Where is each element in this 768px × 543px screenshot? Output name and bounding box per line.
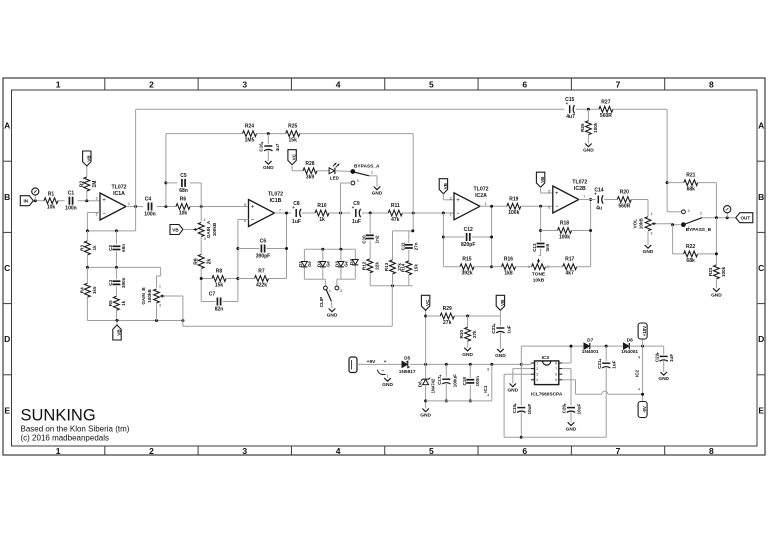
ground CLIP	[329, 309, 336, 312]
wire pin8 riser	[562, 362, 571, 364]
svg-text:GND: GND	[462, 352, 473, 358]
svg-text:R23: R23	[708, 267, 713, 276]
capacitor C21	[602, 362, 610, 364]
svg-text:A: A	[4, 121, 10, 131]
svg-text:15k: 15k	[413, 264, 418, 272]
svg-text:1M5: 1M5	[245, 138, 255, 144]
svg-text:R11: R11	[391, 203, 400, 209]
node R2 bottom junction	[85, 199, 88, 202]
svg-text:LED: LED	[330, 175, 340, 180]
svg-text:A: A	[758, 121, 764, 131]
svg-text:1: 1	[536, 361, 538, 365]
resistor R23	[714, 265, 720, 279]
svg-text:7: 7	[279, 209, 281, 213]
svg-text:GND: GND	[583, 148, 594, 154]
svg-text:390n: 390n	[121, 277, 126, 288]
svg-text:C20: C20	[562, 404, 567, 413]
resistor R20	[617, 197, 631, 203]
svg-text:GND: GND	[507, 388, 518, 394]
svg-text:TONE: TONE	[532, 272, 546, 278]
svg-text:5: 5	[548, 190, 550, 194]
connector OUT	[736, 213, 753, 223]
svg-text:R7: R7	[258, 269, 265, 275]
svg-text:8: 8	[638, 356, 640, 360]
wire VB bus	[183, 325, 392, 327]
ground below C16	[265, 161, 272, 164]
ground jack	[384, 378, 391, 381]
svg-text:VB: VB	[540, 176, 545, 183]
svg-text:8: 8	[555, 361, 557, 365]
svg-text:IC2A: IC2A	[475, 193, 487, 199]
wire diode bottoms	[303, 267, 305, 279]
wire pin2 to gnd	[513, 368, 531, 370]
svg-text:Ge: Ge	[325, 261, 330, 267]
wire VOL wiper to bypass	[656, 223, 673, 225]
svg-text:TL072: TL072	[268, 192, 283, 198]
wire top pump rail	[521, 345, 584, 347]
svg-text:10k: 10k	[47, 205, 56, 211]
svg-text:1uF: 1uF	[292, 219, 301, 225]
svg-text:ICL7660SCPA: ICL7660SCPA	[531, 392, 563, 398]
net flag VB top	[83, 151, 91, 166]
svg-text:R6: R6	[180, 197, 187, 203]
diode D3	[338, 262, 344, 267]
svg-text:1M: 1M	[92, 181, 98, 188]
svg-text:TL072: TL072	[474, 186, 489, 192]
svg-text:(c) 2016 madbeanpedals: (c) 2016 madbeanpedals	[21, 433, 110, 442]
wire IC1B feedback riser	[286, 213, 288, 279]
svg-text:100k: 100k	[593, 122, 598, 133]
wire tone wiper	[539, 255, 541, 257]
resistor R8	[212, 276, 226, 282]
capacitor C23	[496, 327, 504, 329]
svg-text:5: 5	[429, 80, 434, 90]
wire C11 top row	[393, 230, 413, 232]
svg-text:4u7: 4u7	[566, 114, 575, 120]
svg-text:R30: R30	[459, 330, 464, 339]
svg-text:1N4742: 1N4742	[430, 378, 435, 393]
wire 9V row	[357, 363, 402, 365]
svg-text:1: 1	[651, 212, 653, 216]
svg-text:VB: VB	[172, 227, 179, 232]
wire pin3 riser	[504, 373, 531, 375]
svg-text:3n9: 3n9	[545, 243, 550, 251]
svg-text:Ge: Ge	[344, 261, 349, 267]
wire row1	[87, 230, 135, 232]
op-amp IC1B	[249, 200, 275, 227]
wire IC3 left riser	[520, 346, 522, 406]
node C4-R6 junction	[164, 205, 167, 208]
op-amp IC1A	[100, 193, 126, 220]
svg-text:−: −	[382, 369, 385, 374]
svg-text:R12: R12	[361, 261, 366, 270]
svg-text:VB: VB	[86, 155, 91, 162]
svg-text:VB: VB	[443, 182, 448, 189]
net flag VB IC2A	[439, 179, 447, 194]
svg-text:R2: R2	[79, 181, 85, 188]
wire hop over C21	[602, 391, 608, 394]
svg-text:68k: 68k	[687, 187, 696, 193]
svg-text:CLIP: CLIP	[319, 297, 324, 307]
node R26 junction	[587, 108, 590, 111]
diode D1	[301, 262, 307, 267]
svg-text:6: 6	[522, 80, 527, 90]
svg-text:3: 3	[357, 179, 359, 183]
svg-text:1: 1	[56, 80, 61, 90]
svg-text:R24: R24	[245, 124, 254, 130]
svg-text:7: 7	[616, 446, 621, 456]
wire vertical feedback riser	[135, 109, 137, 231]
svg-text:1N5817: 1N5817	[399, 369, 416, 375]
svg-text:10kB: 10kB	[533, 278, 545, 284]
wire IC2A fb left riser	[442, 213, 444, 267]
svg-text:VC: VC	[292, 153, 297, 160]
net flag VB bottom	[116, 321, 118, 326]
svg-text:3k9: 3k9	[306, 175, 315, 181]
svg-text:C13: C13	[532, 243, 537, 252]
svg-text:1uF: 1uF	[611, 360, 616, 368]
resistor R29	[440, 313, 454, 319]
svg-text:C3: C3	[108, 279, 113, 285]
svg-text:SUNKING: SUNKING	[21, 407, 96, 425]
svg-text:D7: D7	[587, 338, 593, 344]
svg-text:5: 5	[244, 203, 246, 207]
wire IC2A fb right riser	[491, 206, 493, 266]
svg-text:D3: D3	[335, 261, 340, 267]
svg-text:R10: R10	[317, 203, 326, 209]
svg-text:4: 4	[536, 378, 538, 382]
ground C22	[660, 372, 667, 375]
diode D4	[352, 260, 358, 265]
svg-text:3: 3	[688, 209, 690, 213]
svg-text:B: B	[758, 192, 764, 202]
resistor R16	[502, 264, 516, 270]
svg-text:GAIN_B: GAIN_B	[141, 287, 146, 305]
svg-text:560R: 560R	[600, 113, 612, 119]
svg-text:22k: 22k	[374, 262, 379, 270]
resistor R9	[198, 255, 204, 269]
resistor R18	[558, 228, 572, 234]
svg-text:7: 7	[583, 195, 585, 199]
wire bypass A to gnd	[369, 175, 377, 177]
svg-text:R25: R25	[288, 124, 297, 130]
svg-text:R29: R29	[443, 306, 452, 312]
wire row2	[87, 266, 160, 268]
svg-text:BYPASS_A: BYPASS_A	[354, 164, 380, 170]
resistor R17	[563, 264, 577, 270]
svg-text:−: −	[456, 211, 460, 217]
wire IC1A output	[126, 206, 143, 208]
svg-text:TL072: TL072	[112, 185, 127, 191]
svg-text:100n: 100n	[65, 206, 76, 212]
op-amp IC2B	[553, 186, 579, 213]
diode D7	[584, 343, 589, 349]
svg-text:6: 6	[522, 446, 527, 456]
svg-text:IC2: IC2	[634, 369, 639, 377]
ground VOL	[645, 245, 652, 248]
svg-text:4: 4	[487, 394, 489, 398]
node C16 junction	[267, 132, 270, 135]
svg-text:2: 2	[149, 446, 154, 456]
wire R23 riser	[715, 218, 717, 265]
svg-text:R5: R5	[108, 300, 113, 306]
svg-text:1n2: 1n2	[374, 235, 379, 243]
svg-text:7: 7	[616, 80, 621, 90]
svg-text:+: +	[456, 198, 460, 204]
wire VC riser	[425, 310, 427, 364]
resistor R19	[507, 203, 521, 209]
net flag VC bypass	[288, 150, 296, 165]
wire top feedback bus	[136, 108, 565, 110]
svg-text:6: 6	[548, 206, 550, 210]
switch CLIP	[324, 286, 328, 290]
wire gain pot riser	[200, 183, 202, 222]
svg-text:1k5: 1k5	[92, 286, 97, 294]
resistor R30	[467, 316, 469, 327]
svg-text:R8: R8	[216, 269, 223, 275]
svg-text:422k: 422k	[256, 282, 267, 288]
capacitor C14	[597, 196, 599, 204]
wire ground rail	[426, 400, 492, 402]
svg-text:82n: 82n	[215, 306, 224, 312]
zener D6	[425, 364, 427, 378]
capacitor C20	[567, 407, 575, 409]
node C10 tap junction	[369, 212, 372, 215]
capacitor C11	[408, 231, 410, 243]
svg-text:GND: GND	[263, 165, 274, 171]
node IC3 supply junction	[520, 363, 523, 366]
svg-text:D5: D5	[404, 355, 410, 361]
ground C23	[497, 349, 504, 352]
wire input row	[33, 200, 44, 202]
svg-text:IC1A: IC1A	[113, 191, 125, 197]
svg-text:3: 3	[96, 197, 98, 201]
svg-text:-9V: -9V	[642, 406, 647, 413]
svg-text:GND: GND	[658, 376, 669, 382]
connector IN	[20, 196, 33, 206]
svg-text:3: 3	[536, 373, 538, 377]
svg-text:4: 4	[638, 388, 640, 392]
svg-text:1: 1	[688, 226, 690, 230]
svg-text:C10: C10	[361, 235, 366, 244]
svg-text:VB: VB	[500, 299, 505, 306]
svg-text:3: 3	[340, 289, 342, 293]
capacitor C17	[445, 363, 448, 366]
svg-text:IC1B: IC1B	[270, 198, 282, 204]
svg-text:−: −	[102, 211, 106, 217]
svg-text:1N4001: 1N4001	[621, 349, 638, 355]
svg-text:392k: 392k	[461, 271, 472, 277]
svg-text:10kB: 10kB	[639, 218, 644, 230]
wire R25 riser to main row	[412, 134, 414, 231]
wire IC1B output	[275, 212, 292, 214]
wire IC2B output	[579, 199, 596, 201]
svg-text:100uF: 100uF	[453, 374, 458, 387]
svg-text:C5: C5	[180, 173, 187, 179]
svg-text:C2: C2	[108, 245, 113, 251]
svg-text:D8: D8	[627, 338, 633, 344]
svg-text:15k: 15k	[289, 138, 298, 144]
wire bypass A contact to main row	[341, 182, 351, 184]
svg-text:C: C	[758, 263, 764, 273]
resistor R26	[586, 121, 592, 135]
svg-text:D1: D1	[298, 261, 303, 267]
svg-text:3: 3	[651, 231, 653, 235]
svg-text:15k: 15k	[215, 282, 224, 288]
op-amp IC2A	[454, 193, 480, 220]
svg-text:E: E	[758, 405, 764, 415]
wire row3	[87, 320, 182, 322]
svg-text:5: 5	[429, 446, 434, 456]
svg-text:+18V: +18V	[642, 326, 647, 336]
svg-text:IN: IN	[24, 199, 29, 204]
svg-text:Ge: Ge	[307, 261, 312, 267]
svg-text:C14: C14	[594, 187, 603, 193]
svg-text:1: 1	[56, 446, 61, 456]
IC3 chip ICL7660SCPA	[535, 361, 559, 385]
svg-text:C22: C22	[654, 353, 659, 362]
net flag +18V	[642, 340, 644, 347]
svg-text:1: 1	[371, 170, 373, 174]
svg-text:68n: 68n	[179, 188, 188, 194]
capacitor C18	[469, 363, 472, 366]
svg-text:1uF: 1uF	[669, 354, 674, 362]
wire IC2A output	[480, 205, 507, 207]
svg-text:OUT: OUT	[740, 216, 750, 221]
svg-text:1: 1	[128, 202, 130, 206]
resistor R12	[367, 259, 373, 273]
svg-text:D2: D2	[317, 261, 322, 267]
wire R8-C7 right riser	[237, 220, 239, 302]
svg-text:10uF: 10uF	[527, 404, 532, 415]
svg-text:3: 3	[159, 304, 161, 308]
svg-text:C18: C18	[462, 377, 467, 386]
net flag VB power	[496, 295, 504, 310]
resistor R25	[286, 131, 300, 137]
net flag VC power	[421, 295, 429, 310]
resistor R14	[408, 250, 410, 261]
LED	[329, 168, 334, 174]
wire diode box top	[340, 213, 342, 249]
svg-text:R1: R1	[48, 192, 55, 198]
svg-text:R20: R20	[620, 190, 629, 196]
capacitor C19	[517, 407, 525, 409]
wire right feedback drop	[666, 109, 668, 212]
svg-text:100n: 100n	[144, 211, 155, 217]
IC1 power pins	[490, 363, 493, 366]
svg-text:R22: R22	[686, 244, 695, 250]
node IC2B minus junction	[539, 205, 542, 208]
svg-text:100kB: 100kB	[212, 222, 217, 236]
svg-text:2: 2	[96, 213, 98, 217]
svg-text:68k: 68k	[686, 258, 695, 264]
resistor R4	[85, 283, 91, 297]
resistor R5	[115, 286, 117, 296]
svg-text:1: 1	[485, 202, 487, 206]
net flag -9V	[638, 402, 647, 418]
capacitor C16	[264, 145, 272, 147]
svg-text:TL072: TL072	[572, 180, 587, 186]
svg-text:D6: D6	[417, 381, 422, 387]
svg-text:1uF: 1uF	[352, 219, 361, 225]
wire IC2B fb riser	[540, 206, 542, 241]
svg-text:R14: R14	[400, 263, 405, 272]
node R6 right junction	[200, 205, 203, 208]
wire bottom pump rail	[521, 436, 606, 438]
svg-text:IC1: IC1	[483, 385, 488, 393]
ground C20	[568, 422, 575, 425]
capacitor C5 branch	[164, 181, 167, 184]
wire gain A to R9	[200, 237, 202, 255]
svg-text:C11: C11	[400, 242, 405, 251]
svg-text:10uF: 10uF	[577, 404, 582, 415]
switch BYPASS_B	[667, 211, 681, 213]
svg-text:R17: R17	[565, 257, 574, 263]
svg-text:1k: 1k	[319, 217, 325, 223]
svg-text:27k: 27k	[443, 320, 452, 326]
resistor R6	[176, 204, 190, 210]
wire C10 branch	[369, 213, 371, 233]
capacitor C8	[295, 209, 297, 217]
potentiometer GAIN_B	[160, 267, 162, 276]
potentiometer GAIN_A	[198, 223, 204, 237]
svg-text:C19: C19	[512, 404, 517, 413]
svg-text:100k: 100k	[559, 234, 570, 240]
svg-text:2k: 2k	[206, 259, 212, 265]
svg-text:27n: 27n	[413, 242, 418, 250]
wire R9 to R8 row	[200, 269, 202, 302]
capacitor C4	[147, 203, 149, 211]
wire pin7 to C20	[562, 368, 571, 370]
svg-text:C9: C9	[353, 201, 360, 207]
svg-text:R21: R21	[686, 173, 695, 179]
svg-text:GND: GND	[420, 413, 431, 419]
wire IC1A minus input	[87, 212, 100, 214]
resistor R21	[667, 182, 684, 184]
wire IC1B minus	[238, 219, 249, 221]
capacitor C1	[68, 197, 70, 205]
svg-text:27k: 27k	[472, 330, 477, 338]
svg-text:2: 2	[536, 367, 538, 371]
node IN junction	[34, 199, 37, 202]
svg-text:R4: R4	[79, 287, 84, 293]
capacitor C10	[366, 234, 374, 236]
svg-text:8: 8	[709, 446, 714, 456]
wire R24 row	[166, 133, 243, 135]
svg-text:GND: GND	[495, 353, 506, 359]
svg-text:R3: R3	[79, 245, 84, 251]
svg-text:D: D	[758, 334, 764, 344]
svg-text:100n: 100n	[475, 376, 480, 387]
wire out node	[702, 217, 736, 219]
svg-text:1k8: 1k8	[504, 271, 513, 277]
svg-text:2: 2	[700, 212, 702, 216]
svg-text:C4: C4	[145, 197, 152, 203]
wire network bottom	[370, 285, 413, 287]
svg-text:C6: C6	[260, 239, 267, 245]
svg-text:+: +	[555, 191, 559, 197]
wire VOL to gnd	[647, 231, 649, 245]
diode D5	[402, 361, 407, 367]
resistor R15	[460, 264, 474, 270]
svg-text:1N4001: 1N4001	[582, 349, 599, 355]
svg-text:R19: R19	[509, 196, 518, 202]
capacitor C12	[466, 233, 468, 241]
svg-text:+: +	[251, 205, 255, 211]
wire pin5 to minus rail	[562, 379, 575, 381]
svg-text:7: 7	[555, 367, 557, 371]
svg-text:1uF: 1uF	[507, 325, 512, 333]
